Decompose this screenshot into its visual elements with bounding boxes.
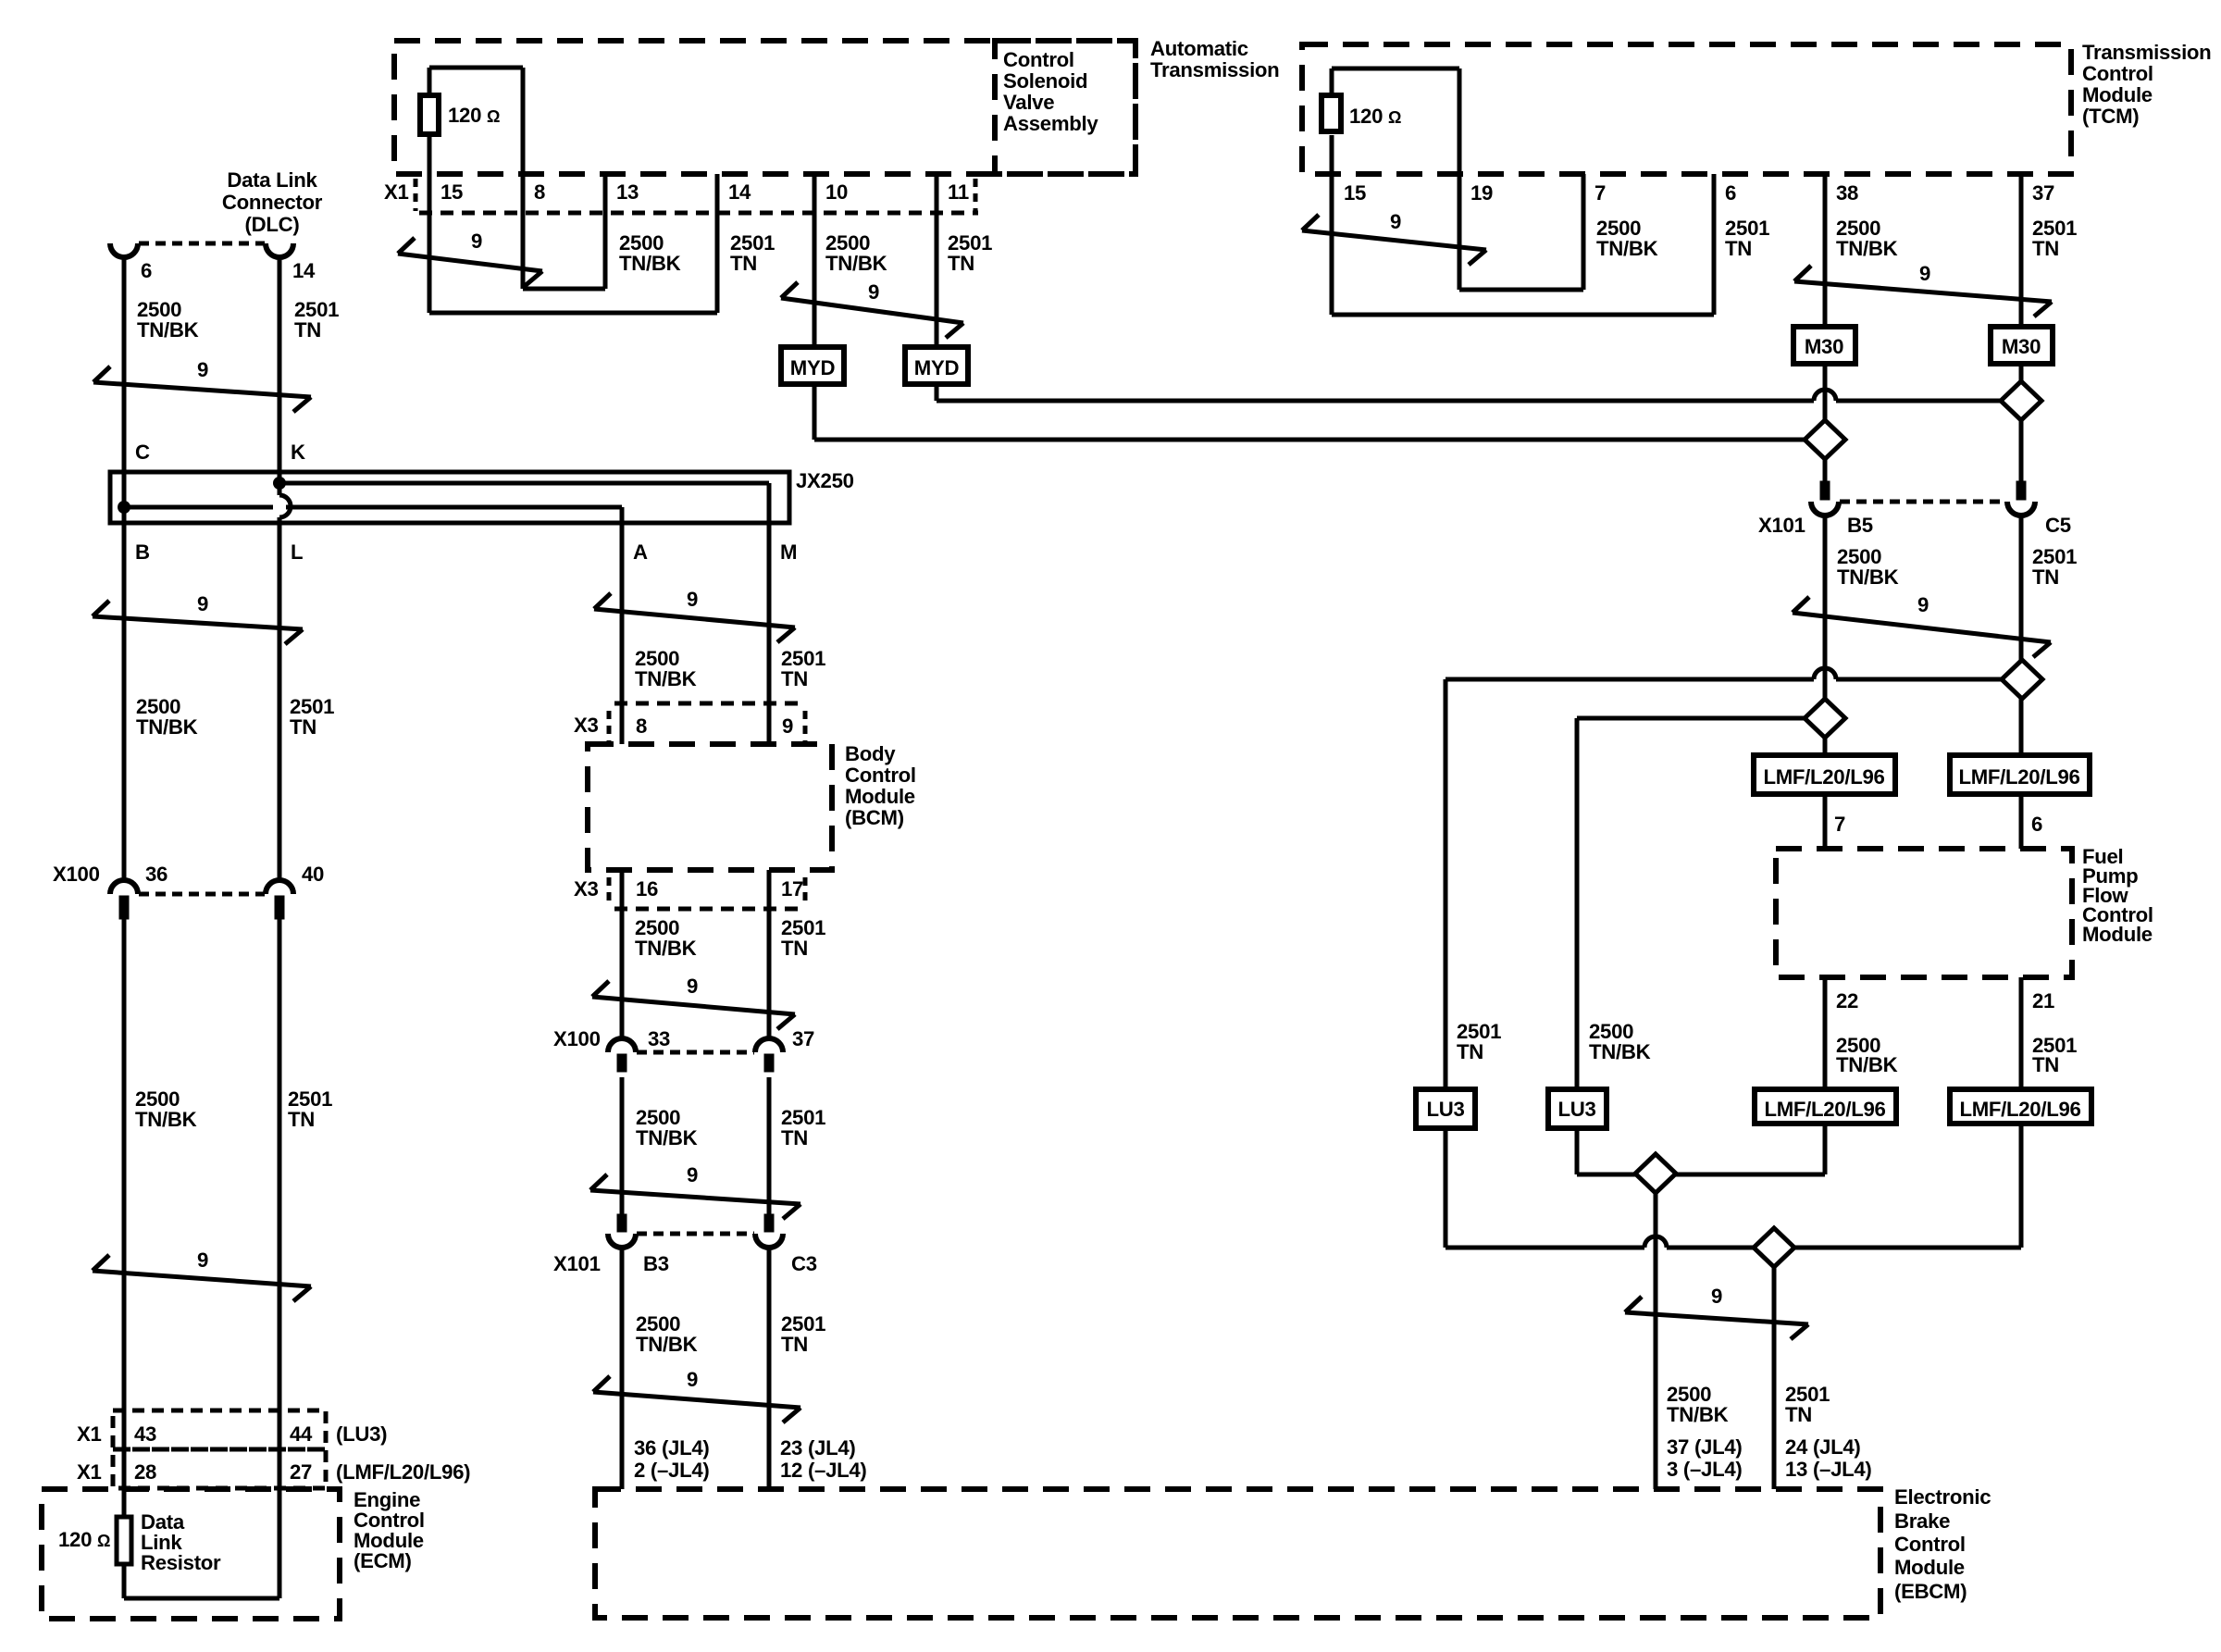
svg-text:9: 9 [868, 280, 879, 304]
svg-text:38: 38 [1836, 181, 1858, 205]
svg-text:TN/BK: TN/BK [1836, 1053, 1898, 1076]
svg-text:X100: X100 [553, 1027, 601, 1050]
svg-text:9: 9 [782, 714, 793, 738]
svg-text:LMF/L20/L96: LMF/L20/L96 [1958, 765, 2079, 789]
svg-text:TN/BK: TN/BK [135, 1108, 197, 1131]
svg-text:Control: Control [845, 764, 916, 787]
svg-text:Assembly: Assembly [1003, 112, 1098, 135]
svg-text:TN: TN [1725, 237, 1752, 260]
svg-text:C: C [135, 441, 150, 464]
svg-text:28: 28 [134, 1460, 156, 1484]
svg-text:9: 9 [197, 1248, 208, 1272]
svg-text:X101: X101 [1758, 514, 1805, 537]
svg-text:2 (–JL4): 2 (–JL4) [634, 1459, 709, 1482]
svg-text:33: 33 [648, 1027, 670, 1050]
svg-text:7: 7 [1594, 181, 1606, 205]
svg-text:Control: Control [1003, 48, 1074, 71]
svg-text:3 (–JL4): 3 (–JL4) [1667, 1458, 1742, 1481]
svg-text:LMF/L20/L96: LMF/L20/L96 [1959, 1098, 2080, 1121]
svg-text:TN/BK: TN/BK [137, 318, 199, 342]
svg-text:9: 9 [1711, 1285, 1722, 1308]
svg-text:TN: TN [781, 937, 808, 960]
svg-text:Automatic: Automatic [1150, 37, 1248, 60]
svg-text:B: B [135, 540, 150, 564]
svg-text:A: A [633, 540, 648, 564]
svg-text:X1: X1 [77, 1422, 102, 1446]
svg-text:43: 43 [134, 1422, 156, 1446]
svg-text:TN/BK: TN/BK [136, 715, 198, 739]
svg-text:37 (JL4): 37 (JL4) [1667, 1435, 1742, 1459]
svg-text:TN/BK: TN/BK [1836, 237, 1898, 260]
svg-text:36: 36 [145, 863, 168, 886]
svg-text:L: L [291, 540, 303, 564]
svg-text:9: 9 [1919, 262, 1930, 285]
svg-text:120 Ω: 120 Ω [448, 104, 500, 127]
svg-text:Body: Body [845, 742, 896, 765]
svg-text:23 (JL4): 23 (JL4) [780, 1436, 855, 1459]
svg-text:C3: C3 [791, 1252, 817, 1275]
svg-text:24 (JL4): 24 (JL4) [1785, 1435, 1860, 1459]
svg-text:TN: TN [2032, 237, 2059, 260]
svg-text:Brake: Brake [1894, 1509, 1950, 1533]
svg-text:(LU3): (LU3) [336, 1422, 387, 1446]
svg-text:TN/BK: TN/BK [1837, 565, 1899, 589]
svg-text:15: 15 [440, 180, 463, 204]
svg-text:21: 21 [2032, 989, 2054, 1012]
svg-text:TN: TN [948, 252, 974, 275]
svg-text:10: 10 [825, 180, 848, 204]
svg-text:K: K [291, 441, 305, 464]
svg-text:M30: M30 [1805, 335, 1843, 358]
svg-text:17: 17 [781, 877, 803, 901]
svg-text:LU3: LU3 [1557, 1098, 1595, 1121]
svg-text:X3: X3 [574, 714, 599, 737]
svg-text:Module: Module [845, 785, 915, 808]
svg-text:TN/BK: TN/BK [1596, 237, 1658, 260]
svg-text:TN/BK: TN/BK [635, 667, 697, 690]
svg-text:9: 9 [1390, 210, 1401, 233]
svg-text:6: 6 [141, 259, 152, 282]
svg-text:8: 8 [534, 180, 545, 204]
svg-text:(LMF/L20/L96): (LMF/L20/L96) [336, 1460, 470, 1484]
svg-text:TN: TN [1457, 1040, 1483, 1063]
svg-text:M: M [780, 540, 797, 564]
svg-text:Control: Control [2082, 62, 2153, 85]
svg-text:X100: X100 [53, 863, 100, 886]
svg-text:15: 15 [1344, 181, 1366, 205]
svg-text:TN/BK: TN/BK [636, 1333, 698, 1356]
svg-text:7: 7 [1834, 813, 1845, 836]
svg-text:12 (–JL4): 12 (–JL4) [780, 1459, 867, 1482]
svg-text:36 (JL4): 36 (JL4) [634, 1436, 709, 1459]
svg-text:M30: M30 [2002, 335, 2041, 358]
svg-text:C5: C5 [2045, 514, 2071, 537]
svg-text:9: 9 [197, 358, 208, 381]
svg-text:Transmission: Transmission [1150, 58, 1279, 81]
svg-text:B3: B3 [643, 1252, 669, 1275]
svg-text:X1: X1 [77, 1460, 102, 1484]
svg-text:9: 9 [687, 1163, 698, 1186]
svg-text:9: 9 [687, 975, 698, 998]
svg-text:16: 16 [636, 877, 658, 901]
svg-text:TN: TN [294, 318, 321, 342]
svg-text:X101: X101 [553, 1252, 601, 1275]
svg-text:(TCM): (TCM) [2082, 105, 2139, 128]
svg-text:Module: Module [1894, 1556, 1965, 1579]
svg-text:TN: TN [1785, 1403, 1812, 1426]
svg-text:22: 22 [1836, 989, 1858, 1012]
svg-text:Electronic: Electronic [1894, 1485, 1991, 1509]
svg-text:Module: Module [2082, 83, 2153, 106]
svg-text:40: 40 [302, 863, 324, 886]
svg-text:X3: X3 [574, 877, 599, 901]
svg-text:6: 6 [2031, 813, 2042, 836]
svg-text:37: 37 [792, 1027, 814, 1050]
svg-text:TN: TN [730, 252, 757, 275]
svg-text:8: 8 [636, 714, 647, 738]
svg-text:LU3: LU3 [1426, 1098, 1464, 1121]
svg-text:6: 6 [1725, 181, 1736, 205]
svg-text:MYD: MYD [790, 356, 836, 379]
svg-text:TN: TN [781, 1126, 808, 1149]
svg-text:11: 11 [948, 180, 969, 204]
svg-text:Transmission: Transmission [2082, 41, 2211, 64]
svg-text:27: 27 [290, 1460, 312, 1484]
svg-text:Resistor: Resistor [141, 1551, 221, 1574]
svg-text:TN/BK: TN/BK [1667, 1403, 1729, 1426]
svg-text:B5: B5 [1847, 514, 1873, 537]
svg-text:13: 13 [616, 180, 639, 204]
svg-text:(DLC): (DLC) [245, 213, 300, 236]
svg-text:14: 14 [292, 259, 316, 282]
svg-text:13 (–JL4): 13 (–JL4) [1785, 1458, 1872, 1481]
svg-text:9: 9 [687, 1368, 698, 1391]
svg-text:37: 37 [2032, 181, 2054, 205]
svg-text:JX250: JX250 [796, 469, 854, 492]
svg-text:X1: X1 [384, 180, 409, 204]
svg-text:MYD: MYD [914, 356, 960, 379]
svg-text:Solenoid: Solenoid [1003, 69, 1087, 93]
svg-text:Data Link: Data Link [227, 168, 317, 192]
svg-text:(BCM): (BCM) [845, 806, 904, 829]
svg-text:TN: TN [2032, 565, 2059, 589]
svg-text:TN: TN [781, 1333, 808, 1356]
svg-text:9: 9 [1917, 593, 1929, 616]
svg-text:TN: TN [781, 667, 808, 690]
svg-text:LMF/L20/L96: LMF/L20/L96 [1764, 1098, 1885, 1121]
svg-text:19: 19 [1470, 181, 1493, 205]
svg-text:Connector: Connector [222, 191, 323, 214]
svg-text:TN: TN [290, 715, 316, 739]
svg-text:120 Ω: 120 Ω [58, 1528, 110, 1551]
svg-text:TN/BK: TN/BK [636, 1126, 698, 1149]
svg-text:Module: Module [2082, 923, 2153, 946]
svg-text:LMF/L20/L96: LMF/L20/L96 [1763, 765, 1884, 789]
svg-text:TN/BK: TN/BK [825, 252, 887, 275]
svg-text:120 Ω: 120 Ω [1349, 105, 1401, 128]
svg-text:9: 9 [687, 588, 698, 611]
svg-text:44: 44 [290, 1422, 313, 1446]
svg-text:TN/BK: TN/BK [1589, 1040, 1651, 1063]
svg-text:14: 14 [728, 180, 751, 204]
svg-text:Control: Control [1894, 1533, 1966, 1556]
svg-text:TN: TN [288, 1108, 315, 1131]
svg-text:TN/BK: TN/BK [619, 252, 681, 275]
svg-text:9: 9 [471, 230, 482, 253]
svg-text:TN: TN [2032, 1053, 2059, 1076]
svg-text:TN/BK: TN/BK [635, 937, 697, 960]
svg-text:9: 9 [197, 592, 208, 615]
svg-text:(ECM): (ECM) [354, 1549, 412, 1572]
svg-text:(EBCM): (EBCM) [1894, 1580, 1967, 1603]
svg-text:Valve: Valve [1003, 91, 1054, 114]
